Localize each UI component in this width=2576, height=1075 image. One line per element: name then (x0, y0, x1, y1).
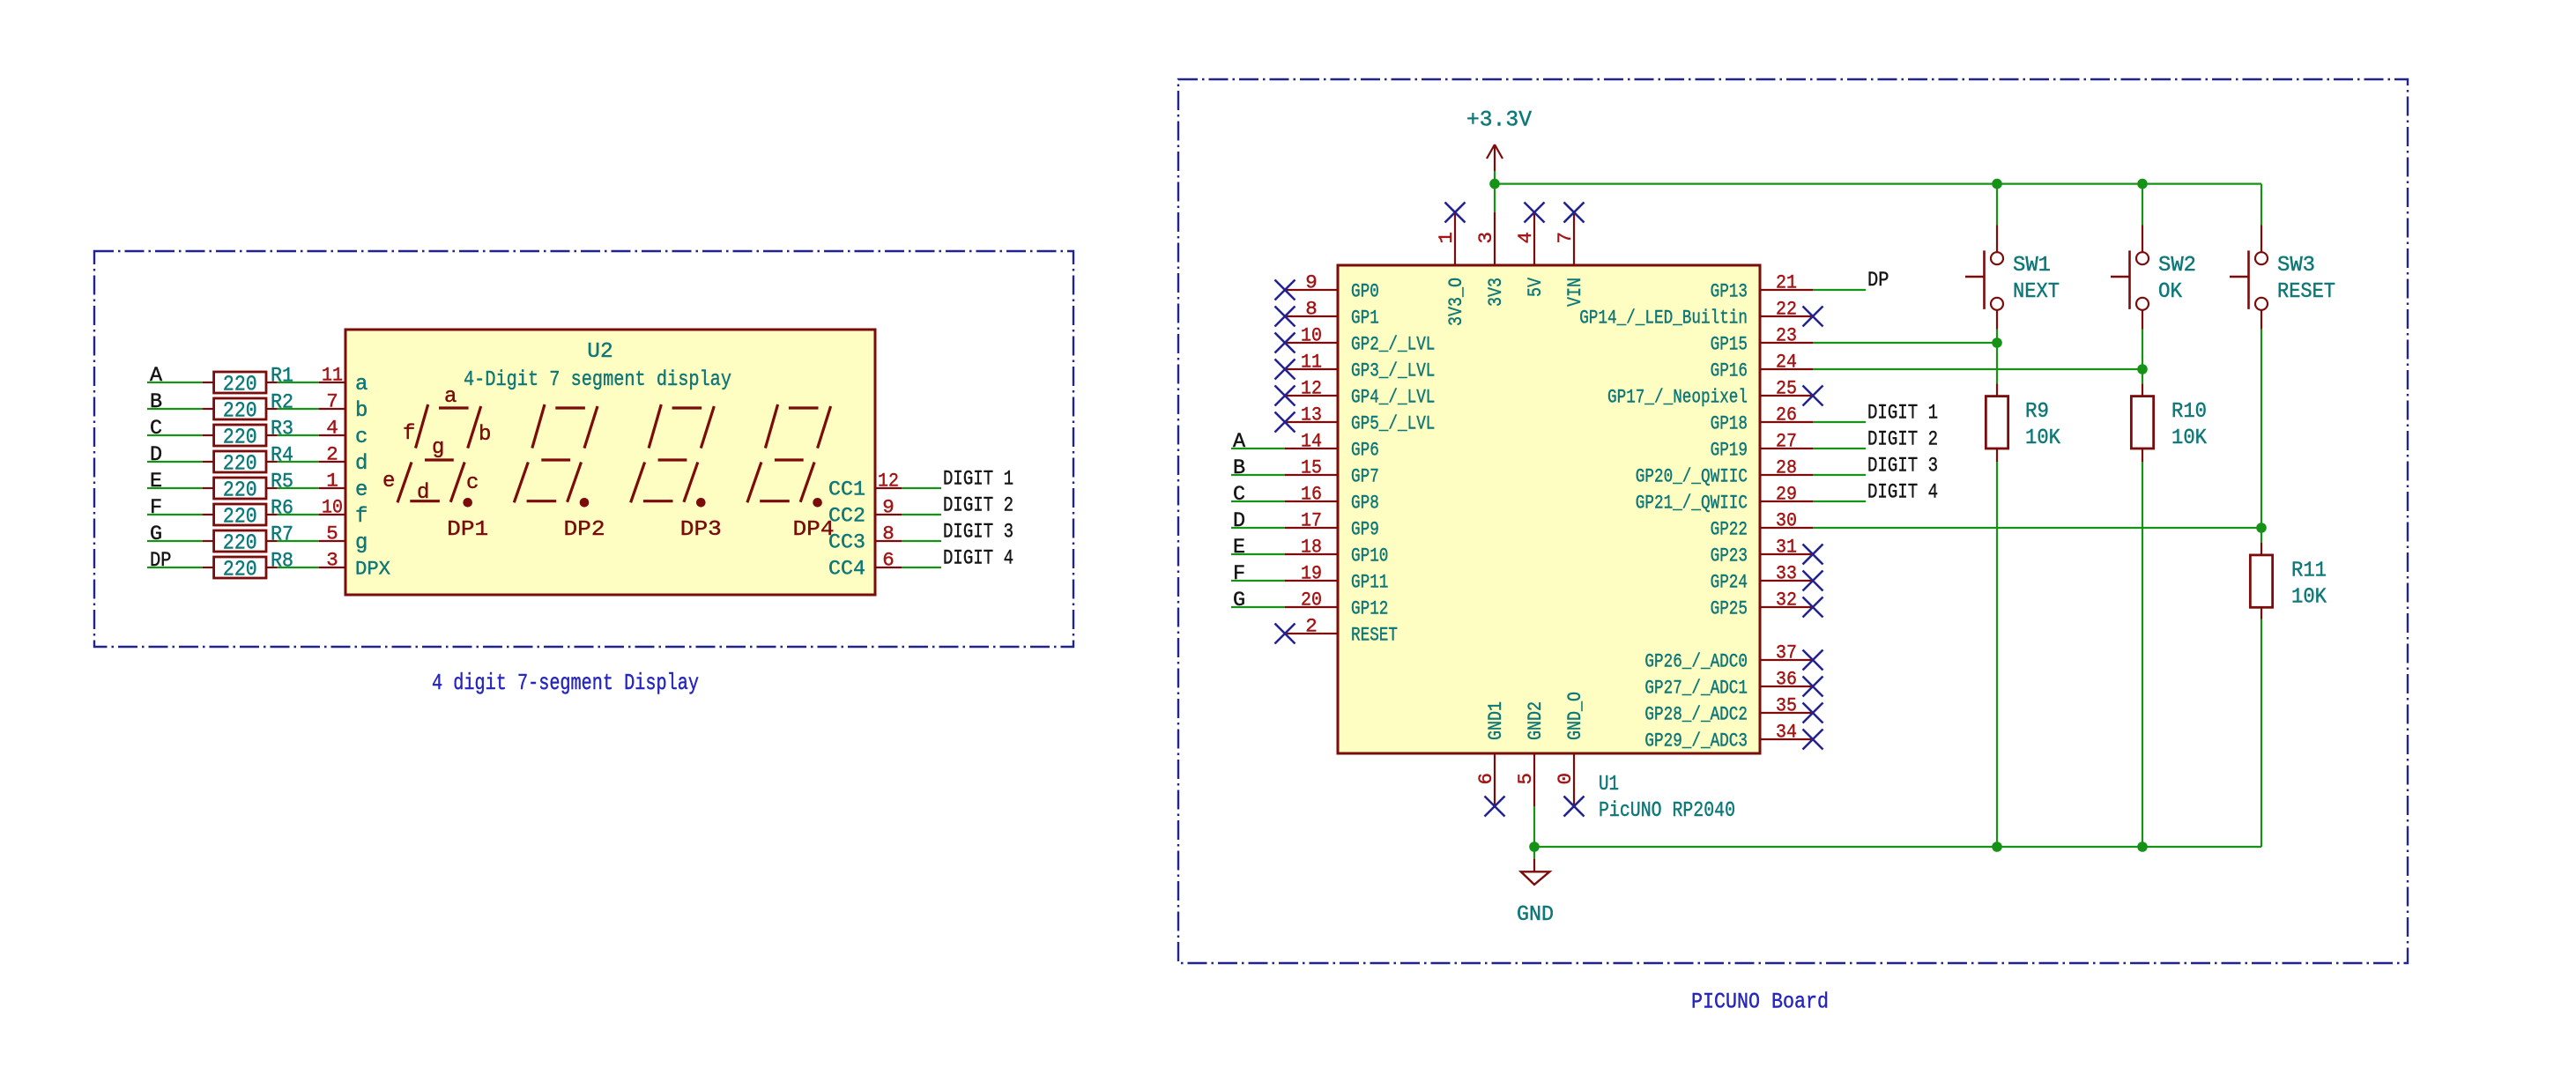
svg-text:GP16: GP16 (1711, 360, 1748, 382)
svg-text:GP18: GP18 (1711, 413, 1748, 435)
svg-text:220: 220 (223, 479, 257, 503)
svg-text:GP20_/_QWIIC: GP20_/_QWIIC (1636, 466, 1748, 488)
svg-text:3V3: 3V3 (1485, 278, 1507, 307)
svg-text:22: 22 (1776, 298, 1797, 321)
svg-text:DIGIT 1: DIGIT 1 (943, 468, 1013, 492)
svg-text:DP: DP (1867, 269, 1889, 293)
svg-text:SW2: SW2 (2158, 254, 2196, 278)
svg-text:220: 220 (223, 426, 257, 450)
svg-text:20: 20 (1301, 589, 1322, 612)
svg-text:11: 11 (322, 364, 343, 387)
svg-text:24: 24 (1776, 351, 1797, 374)
svg-text:F: F (150, 496, 162, 520)
svg-text:15: 15 (1301, 456, 1322, 479)
svg-text:R5: R5 (271, 471, 293, 494)
svg-text:DIGIT 3: DIGIT 3 (943, 521, 1013, 545)
svg-text:G: G (150, 523, 162, 546)
svg-text:10K: 10K (2291, 585, 2327, 609)
svg-text:6: 6 (882, 549, 895, 572)
svg-text:GND: GND (1517, 903, 1554, 927)
svg-text:32: 32 (1776, 589, 1797, 612)
svg-text:DP4: DP4 (793, 518, 835, 542)
svg-text:g: g (355, 531, 367, 555)
svg-text:U2: U2 (587, 340, 612, 364)
svg-text:R11: R11 (2291, 559, 2327, 582)
svg-text:GP1: GP1 (1351, 308, 1379, 330)
svg-text:27: 27 (1776, 430, 1797, 453)
svg-text:R7: R7 (271, 523, 293, 547)
svg-text:a: a (355, 373, 367, 397)
svg-text:GP23: GP23 (1711, 545, 1748, 567)
svg-text:GP19: GP19 (1711, 440, 1748, 462)
svg-text:5: 5 (1514, 773, 1537, 785)
svg-text:3: 3 (1474, 232, 1497, 244)
svg-text:220: 220 (223, 506, 257, 530)
svg-text:DIGIT 2: DIGIT 2 (1867, 428, 1938, 452)
svg-text:33: 33 (1776, 562, 1797, 585)
svg-text:GP11: GP11 (1351, 572, 1388, 594)
svg-text:18: 18 (1301, 536, 1322, 559)
svg-text:c: c (466, 471, 479, 495)
svg-text:d: d (355, 452, 367, 476)
svg-text:GP22: GP22 (1711, 519, 1748, 541)
svg-text:7: 7 (326, 390, 338, 413)
svg-text:16: 16 (1301, 483, 1322, 506)
svg-text:220: 220 (223, 374, 257, 397)
svg-text:220: 220 (223, 400, 257, 424)
svg-text:G: G (1233, 589, 1245, 612)
svg-text:220: 220 (223, 532, 257, 556)
svg-text:4: 4 (326, 417, 338, 440)
svg-text:8: 8 (1305, 298, 1318, 321)
svg-text:NEXT: NEXT (2013, 280, 2060, 304)
svg-text:12: 12 (1301, 377, 1322, 400)
svg-text:1: 1 (326, 470, 338, 493)
svg-text:U1: U1 (1599, 773, 1619, 797)
svg-text:GP26_/_ADC0: GP26_/_ADC0 (1644, 651, 1748, 673)
svg-text:23: 23 (1776, 324, 1797, 347)
svg-text:GND_O: GND_O (1564, 692, 1586, 740)
svg-text:GP14_/_LED_Builtin: GP14_/_LED_Builtin (1579, 308, 1748, 330)
svg-text:4: 4 (1514, 232, 1537, 244)
svg-text:GP17_/_Neopixel: GP17_/_Neopixel (1607, 387, 1748, 409)
svg-text:e: e (355, 478, 367, 502)
svg-text:DP2: DP2 (564, 518, 605, 542)
svg-text:CC4: CC4 (828, 558, 865, 581)
svg-text:a: a (444, 385, 457, 409)
svg-text:SW3: SW3 (2277, 254, 2315, 278)
svg-text:29: 29 (1776, 483, 1797, 506)
svg-text:25: 25 (1776, 377, 1797, 400)
svg-text:3V3_O: 3V3_O (1445, 278, 1467, 326)
svg-text:6: 6 (1474, 773, 1497, 785)
svg-text:R9: R9 (2025, 400, 2049, 424)
svg-text:7: 7 (1554, 232, 1577, 244)
svg-text:E: E (1233, 536, 1245, 560)
svg-text:26: 26 (1776, 404, 1797, 426)
svg-text:DIGIT 4: DIGIT 4 (943, 547, 1013, 571)
svg-text:SW1: SW1 (2013, 254, 2051, 278)
svg-text:GP15: GP15 (1711, 334, 1748, 356)
svg-text:c: c (355, 426, 367, 449)
svg-text:B: B (1233, 456, 1245, 480)
svg-text:220: 220 (223, 559, 257, 582)
svg-text:R4: R4 (271, 444, 293, 468)
svg-text:19: 19 (1301, 562, 1322, 585)
svg-text:31: 31 (1776, 536, 1797, 559)
svg-text:21: 21 (1776, 271, 1797, 294)
svg-text:R1: R1 (271, 365, 293, 389)
svg-text:13: 13 (1301, 404, 1322, 426)
svg-text:GND2: GND2 (1525, 701, 1547, 740)
svg-text:R6: R6 (271, 497, 293, 521)
svg-text:GND1: GND1 (1485, 701, 1507, 740)
svg-text:VIN: VIN (1564, 278, 1586, 307)
svg-text:37: 37 (1776, 641, 1797, 664)
svg-text:f: f (355, 505, 367, 529)
svg-text:OK: OK (2158, 280, 2182, 304)
svg-text:GP9: GP9 (1351, 519, 1379, 541)
svg-text:9: 9 (1305, 271, 1318, 294)
svg-text:11: 11 (1301, 351, 1322, 374)
svg-text:GP6: GP6 (1351, 440, 1379, 462)
svg-text:17: 17 (1301, 509, 1322, 532)
svg-text:F: F (1233, 562, 1245, 586)
svg-text:PICUNO Board: PICUNO Board (1691, 990, 1829, 1015)
svg-text:4-Digit 7 segment display: 4-Digit 7 segment display (464, 368, 731, 392)
svg-text:GP28_/_ADC2: GP28_/_ADC2 (1644, 704, 1748, 726)
svg-text:D: D (150, 443, 162, 467)
svg-text:b: b (479, 423, 491, 447)
svg-text:DIGIT 1: DIGIT 1 (1867, 402, 1938, 426)
svg-text:5: 5 (326, 523, 338, 545)
svg-text:30: 30 (1776, 509, 1797, 532)
svg-text:GP29_/_ADC3: GP29_/_ADC3 (1644, 730, 1748, 752)
svg-text:34: 34 (1776, 721, 1797, 744)
svg-text:GP8: GP8 (1351, 493, 1379, 515)
svg-text:GP21_/_QWIIC: GP21_/_QWIIC (1636, 493, 1748, 515)
svg-text:8: 8 (882, 523, 895, 545)
svg-text:R8: R8 (271, 550, 293, 574)
svg-text:35: 35 (1776, 694, 1797, 717)
svg-text:C: C (150, 417, 162, 441)
svg-text:GP0: GP0 (1351, 281, 1379, 303)
svg-text:E: E (150, 470, 162, 493)
svg-text:DP: DP (150, 549, 172, 573)
svg-text:GP27_/_ADC1: GP27_/_ADC1 (1644, 678, 1748, 700)
svg-text:f: f (403, 422, 415, 446)
svg-text:10K: 10K (2025, 426, 2060, 450)
svg-text:4 digit 7-segment Display: 4 digit 7-segment Display (432, 670, 699, 696)
svg-text:A: A (150, 364, 163, 388)
svg-text:DP3: DP3 (680, 518, 722, 542)
svg-text:e: e (382, 470, 395, 493)
svg-text:GP3_/_LVL: GP3_/_LVL (1351, 360, 1435, 382)
svg-text:b: b (355, 399, 367, 423)
svg-text:12: 12 (878, 470, 899, 493)
svg-text:R2: R2 (271, 391, 293, 415)
svg-text:3: 3 (326, 549, 338, 572)
svg-text:DIGIT 2: DIGIT 2 (943, 494, 1013, 518)
svg-text:C: C (1233, 483, 1245, 507)
svg-text:2: 2 (1305, 615, 1318, 638)
svg-text:GP24: GP24 (1711, 572, 1748, 594)
svg-text:d: d (417, 481, 429, 505)
svg-text:GP10: GP10 (1351, 545, 1388, 567)
svg-text:DPX: DPX (355, 558, 390, 581)
svg-text:g: g (432, 436, 444, 460)
svg-text:10K: 10K (2171, 426, 2207, 450)
svg-text:DIGIT 3: DIGIT 3 (1867, 455, 1938, 478)
svg-text:GP25: GP25 (1711, 598, 1748, 620)
svg-text:10: 10 (322, 496, 343, 519)
svg-text:GP4_/_LVL: GP4_/_LVL (1351, 387, 1435, 409)
svg-text:RESET: RESET (2277, 280, 2335, 304)
svg-text:GP7: GP7 (1351, 466, 1379, 488)
svg-text:RESET: RESET (1351, 625, 1398, 647)
svg-text:GP12: GP12 (1351, 598, 1388, 620)
svg-text:+3.3V: +3.3V (1466, 107, 1532, 133)
svg-text:28: 28 (1776, 456, 1797, 479)
svg-text:CC1: CC1 (828, 478, 865, 501)
svg-text:1: 1 (1435, 232, 1458, 244)
svg-text:GP2_/_LVL: GP2_/_LVL (1351, 334, 1435, 356)
svg-text:R10: R10 (2171, 400, 2207, 424)
svg-text:14: 14 (1301, 430, 1322, 453)
svg-text:DP1: DP1 (447, 518, 488, 542)
svg-text:5V: 5V (1525, 277, 1547, 297)
svg-text:R3: R3 (271, 418, 293, 441)
svg-text:2: 2 (326, 443, 338, 466)
svg-text:220: 220 (223, 453, 257, 477)
svg-text:DIGIT 4: DIGIT 4 (1867, 481, 1938, 505)
svg-text:36: 36 (1776, 668, 1797, 691)
svg-text:9: 9 (882, 496, 895, 519)
svg-text:10: 10 (1301, 324, 1322, 347)
svg-text:GP13: GP13 (1711, 281, 1748, 303)
svg-text:0: 0 (1554, 773, 1577, 785)
svg-text:D: D (1233, 509, 1245, 533)
svg-text:PicUNO RP2040: PicUNO RP2040 (1599, 799, 1735, 823)
svg-text:A: A (1233, 430, 1246, 454)
svg-text:B: B (150, 390, 162, 414)
svg-text:GP5_/_LVL: GP5_/_LVL (1351, 413, 1435, 435)
